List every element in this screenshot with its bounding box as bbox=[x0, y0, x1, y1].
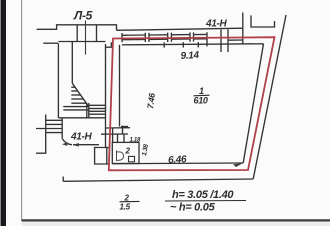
stairwell left T tick bbox=[43, 42, 58, 44]
svg-text:41-Н: 41-Н bbox=[205, 19, 228, 30]
small room left wall extension bbox=[112, 128, 114, 143]
window W1 bbox=[122, 34, 145, 36]
svg-text:7.46: 7.46 bbox=[145, 92, 157, 109]
svg-text:1: 1 bbox=[199, 86, 204, 96]
bathroom small room bbox=[112, 142, 139, 163]
stair block top line bbox=[37, 25, 117, 31]
lobby box bbox=[95, 148, 109, 165]
stairwell left wall bbox=[57, 43, 59, 118]
top wall inner line bbox=[122, 44, 264, 45]
landing treads bbox=[63, 106, 89, 108]
stair wall below box bbox=[61, 118, 63, 138]
top wall outer line bbox=[117, 28, 244, 30]
fraction 1/610 bbox=[194, 86, 210, 106]
svg-text:41-Н: 41-Н bbox=[70, 132, 93, 143]
wall jamb tick bbox=[106, 42, 112, 47]
svg-text:2: 2 bbox=[125, 147, 131, 156]
svg-text:610: 610 bbox=[194, 96, 208, 106]
inner slanted right wall bbox=[243, 44, 263, 163]
landing wall right bbox=[96, 25, 98, 42]
window W2 bbox=[149, 34, 168, 36]
page edge vertical line bbox=[21, 0, 23, 221]
entry door swing bbox=[62, 139, 72, 145]
wall end tick bbox=[242, 13, 244, 44]
stair apex line bbox=[71, 42, 73, 83]
stairwell top edge bbox=[58, 41, 105, 43]
shared wall stair/room bbox=[105, 44, 107, 148]
label 41-N top leader lines bbox=[220, 30, 222, 53]
toilet symbol bbox=[117, 151, 124, 162]
landing wall left bbox=[76, 25, 78, 42]
svg-text:9.14: 9.14 bbox=[180, 50, 200, 62]
stair box bottom line bbox=[58, 117, 105, 119]
window W4 bbox=[194, 33, 208, 35]
lower left wall tick bbox=[36, 152, 46, 154]
mullion ticks bbox=[121, 33, 123, 42]
outer bottom wall line bbox=[63, 179, 253, 181]
page edge bottom line bbox=[22, 219, 330, 221]
upper flight treads bbox=[71, 86, 75, 88]
left wall window opening bbox=[106, 127, 130, 129]
red apartment outline bbox=[109, 37, 275, 170]
left black binder bar bbox=[1, 0, 7, 226]
stair cut diagonal bbox=[72, 83, 89, 106]
opening jamb verticals bbox=[122, 126, 124, 135]
lower flight below treads bbox=[46, 119, 63, 121]
dimension arrowhead bbox=[233, 163, 243, 167]
svg-text:6.46: 6.46 bbox=[168, 154, 188, 166]
stair rail bbox=[86, 103, 88, 118]
svg-text:h= 3.05 /1.40: h= 3.05 /1.40 bbox=[172, 189, 234, 201]
svg-text:1.5: 1.5 bbox=[120, 203, 131, 212]
window W5 line bbox=[228, 39, 243, 41]
entry arrowheads bbox=[73, 143, 79, 147]
outer bottom left tick bbox=[62, 177, 64, 182]
room inner left wall bbox=[119, 45, 121, 127]
outer slanted right wall bbox=[253, 15, 286, 179]
opening door bar bbox=[121, 126, 128, 128]
fraction 2/1.5 bbox=[120, 194, 140, 212]
chimney U shape top right bbox=[251, 15, 275, 27]
dimension ticks below inner line bbox=[163, 42, 165, 47]
inner bottom wall line / dimension line bbox=[112, 162, 243, 165]
svg-text:~ h= 0.05: ~ h= 0.05 bbox=[170, 202, 216, 214]
lower left outer wall bbox=[45, 115, 47, 154]
svg-text:Л-5: Л-5 bbox=[73, 9, 93, 23]
wall below lobby bbox=[106, 148, 108, 165]
below-line grey strip bbox=[22, 222, 330, 227]
svg-text:1.18: 1.18 bbox=[130, 138, 141, 144]
lower flight treads bbox=[90, 104, 106, 106]
label L-5 leader bbox=[85, 21, 87, 55]
window W3 bbox=[171, 34, 190, 36]
sink square bbox=[129, 156, 135, 161]
entry door line bbox=[73, 144, 99, 146]
